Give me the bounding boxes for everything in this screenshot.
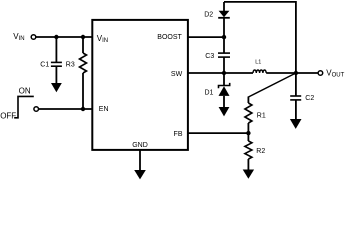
- node VIN terminal: [31, 35, 36, 40]
- ground (below D1): [219, 107, 230, 116]
- wire feedback diagonal: [248, 73, 296, 97]
- svg-text:ON: ON: [19, 86, 31, 95]
- svg-text:R3: R3: [66, 62, 75, 69]
- wire SW row: [188, 72, 253, 74]
- resistor R1: [245, 97, 252, 134]
- diode D1 (catch, schottky): [219, 73, 230, 107]
- svg-text:GND: GND: [132, 142, 148, 149]
- junction FB node: [246, 131, 250, 135]
- node VOUT terminal: [318, 71, 323, 76]
- wire FB: [188, 132, 248, 134]
- ON/OFF waveform: [14, 96, 34, 117]
- svg-text:C3: C3: [205, 53, 214, 60]
- wire VIN to IC: [36, 36, 93, 38]
- ground (below C1): [51, 83, 62, 92]
- diode D2 (bootstrap): [218, 2, 230, 37]
- junction output node: [294, 71, 298, 75]
- wire EN to IC: [39, 108, 93, 110]
- svg-text:R2: R2: [256, 148, 265, 155]
- svg-text:EN: EN: [99, 106, 109, 113]
- svg-text:BOOST: BOOST: [157, 34, 182, 41]
- wire GND stub: [139, 151, 141, 171]
- node EN terminal: [34, 107, 39, 112]
- svg-text:L1: L1: [255, 60, 261, 66]
- ground (below C2): [290, 119, 302, 129]
- capacitor C3: [218, 37, 230, 73]
- inductor L1: [253, 70, 266, 73]
- capacitor C1: [51, 37, 62, 83]
- svg-text:C2: C2: [305, 95, 314, 102]
- op-amp U1 regulator IC body: [92, 20, 188, 150]
- junction BOOST node: [222, 35, 226, 39]
- svg-text:FB: FB: [174, 131, 183, 138]
- svg-text:SW: SW: [171, 71, 183, 78]
- junction C1 top: [54, 35, 58, 39]
- capacitor C2: [290, 73, 301, 119]
- svg-text:C1: C1: [40, 61, 49, 68]
- svg-text:R1: R1: [257, 113, 266, 120]
- ground (below R2): [243, 170, 254, 179]
- svg-text:D1: D1: [205, 89, 214, 96]
- junction R3 top: [81, 35, 85, 39]
- ground (below GND pin): [134, 170, 146, 179]
- svg-text:OFF: OFF: [0, 112, 16, 121]
- wire BOOST: [188, 36, 224, 38]
- resistor R2: [245, 133, 252, 170]
- junction R3 bottom / EN: [81, 107, 85, 111]
- wire L1 to VOUT: [266, 72, 318, 74]
- resistor R3: [80, 37, 87, 109]
- junction SW node: [222, 71, 226, 75]
- svg-text:D2: D2: [204, 12, 213, 19]
- wire top (D2 anode to output column): [224, 2, 296, 73]
